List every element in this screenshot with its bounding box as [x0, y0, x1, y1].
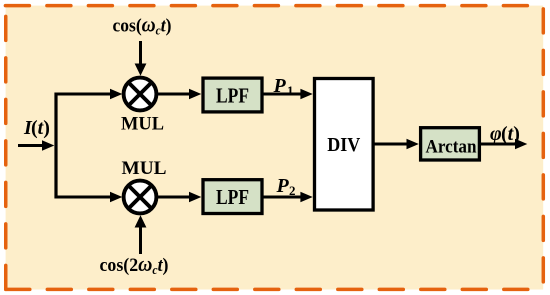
svg-text:P: P: [276, 175, 290, 197]
wire DIV to Arctan: [374, 139, 419, 150]
wire branch to bottom multiplier: [56, 192, 122, 203]
svg-text:1: 1: [287, 83, 294, 98]
block LPF1: [203, 78, 262, 112]
dashed frame border left: [4, 6, 8, 290]
wire output arrow: [481, 139, 527, 150]
wire LPF2 to DIV: [264, 192, 313, 203]
block DIV: [315, 79, 374, 211]
wire branch to top multiplier: [56, 89, 122, 100]
multiplier circle top: [124, 78, 157, 111]
svg-text:MUL: MUL: [121, 115, 164, 135]
svg-text:Arctan: Arctan: [426, 136, 477, 157]
svg-text:cos(2ωct): cos(2ωct): [100, 252, 169, 277]
block Arctan: [421, 128, 480, 160]
svg-text:φ: φ: [490, 123, 502, 145]
wire arrow into bottom multiplier (vertical, upward): [135, 215, 147, 254]
multiplier circle bottom: [124, 181, 157, 214]
wire bottom multiplier to LPF2: [157, 192, 201, 203]
svg-text:MUL: MUL: [122, 159, 167, 179]
wire top multiplier to LPF1: [157, 89, 201, 100]
svg-text:cos(ωct): cos(ωct): [113, 13, 172, 38]
wire arrow into top multiplier (vertical): [135, 41, 147, 76]
wire input arrow: [18, 140, 54, 151]
svg-text:DIV: DIV: [327, 134, 360, 156]
svg-text:(t): (t): [31, 117, 50, 139]
wire LPF1 to DIV: [264, 89, 313, 100]
svg-text:LPF: LPF: [216, 84, 249, 108]
dashed frame border top: [5, 4, 543, 8]
svg-text:LPF: LPF: [216, 185, 249, 209]
dashed frame border right: [542, 9, 546, 290]
wire branch vertical: [54, 93, 57, 199]
dashed frame border bottom: [6, 288, 544, 292]
block LPF2: [203, 180, 262, 214]
